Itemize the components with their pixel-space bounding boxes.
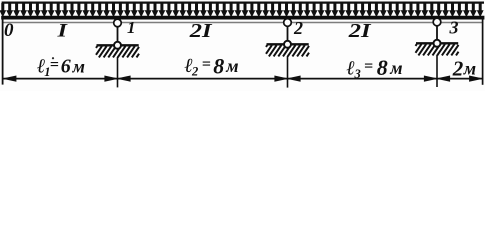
- support 1 rod: [117, 27, 119, 43]
- svg-text:=: =: [202, 56, 211, 73]
- dimension label l1 = 6 m: [37, 56, 85, 79]
- dim arrow right end of l2: [274, 76, 289, 82]
- distributed load arrowheads: [0, 10, 484, 17]
- beam 0-3: [1, 16, 484, 20]
- svg-text:м: м: [389, 58, 402, 78]
- support 2 rod: [287, 26, 289, 41]
- support 2 ground block top edge: [267, 43, 309, 45]
- svg-text:1: 1: [127, 18, 136, 37]
- svg-text:=: =: [50, 56, 59, 73]
- support 0 extension line: [2, 16, 4, 85]
- support 1 hinge circle: [114, 19, 122, 27]
- svg-text:м: м: [463, 59, 476, 79]
- svg-text:2: 2: [293, 18, 303, 38]
- svg-text:3: 3: [354, 67, 361, 81]
- beam scan echo line: [2, 22, 483, 24]
- svg-text:8: 8: [213, 54, 224, 79]
- support 2 hinge circle: [284, 19, 292, 27]
- svg-text:=: =: [364, 58, 373, 75]
- support 1 ground block top edge: [97, 44, 139, 46]
- svg-text:0: 0: [4, 20, 14, 41]
- dimension line: [3, 78, 483, 80]
- support 1 extension line: [117, 57, 119, 87]
- dim arrow left end of 2m span: [436, 76, 451, 82]
- support 3 extension line: [436, 55, 438, 87]
- svg-text:3: 3: [449, 18, 459, 38]
- svg-text:I: I: [56, 21, 68, 42]
- stray dot above equals of l1: [52, 57, 54, 59]
- dim arrow left end of l3: [286, 76, 301, 82]
- support 1 ground hinge: [114, 42, 121, 49]
- svg-text:м: м: [72, 57, 85, 77]
- svg-text:м: м: [225, 56, 238, 76]
- right end extension line: [482, 16, 484, 85]
- svg-text:2I: 2I: [189, 20, 213, 42]
- dimension label l3 = 8 m: [347, 55, 403, 81]
- dim arrow right end of 2m span: [469, 76, 484, 82]
- support 3 ground block top edge: [416, 42, 458, 44]
- svg-text:2I: 2I: [348, 20, 372, 42]
- support 3 ground hinge: [434, 40, 441, 47]
- support 1 ground hatching: [96, 46, 139, 57]
- distributed load arrow stems: [3, 3, 480, 11]
- dimension label 2 m: [452, 56, 476, 80]
- support 2 extension line: [287, 56, 289, 88]
- dim arrow right end of l1: [104, 76, 119, 82]
- support 3 rod: [436, 26, 438, 41]
- dim arrow left end of l2: [116, 76, 131, 82]
- support 2 ground hinge: [284, 41, 291, 48]
- svg-text:2: 2: [191, 64, 198, 78]
- dim arrow left end of l1: [2, 76, 17, 82]
- dimension label l2 = 8 m: [185, 54, 239, 79]
- svg-text:8: 8: [377, 55, 388, 80]
- support 3 ground hatching: [416, 44, 459, 55]
- support 2 ground hatching: [266, 45, 309, 56]
- dim arrow right end of l3: [424, 76, 439, 82]
- distributed load top line: [2, 1, 484, 3]
- svg-text:6: 6: [61, 56, 71, 78]
- svg-text:2: 2: [452, 56, 464, 80]
- support 3 hinge circle: [433, 18, 441, 26]
